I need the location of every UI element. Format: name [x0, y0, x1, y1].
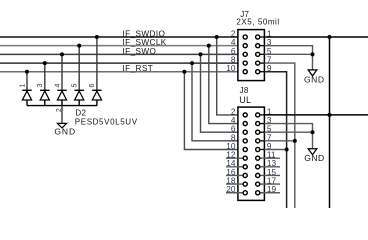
- junction J8 pin9 on vertical x286.6: [285, 148, 289, 152]
- junction at x329.5 on J7 pin1 net: [328, 35, 332, 39]
- J8 pin number 8: [231, 132, 236, 142]
- junction on IF_RST at x27: [25, 70, 29, 74]
- reference designator J7: [240, 10, 249, 19]
- svg-text:4: 4: [54, 84, 61, 88]
- J8 pin number 10: [226, 141, 236, 151]
- junction J8 pin7 on vertical x294.8: [293, 139, 297, 143]
- svg-text:GND: GND: [54, 126, 76, 136]
- junction on IF_SWO at x62: [60, 52, 64, 56]
- J8 pin number 7: [267, 132, 272, 142]
- J8 pin number 19: [267, 184, 277, 194]
- J7 pin number 4: [231, 37, 236, 47]
- svg-text:20: 20: [226, 184, 236, 194]
- J8 pin number 1: [267, 106, 272, 116]
- J8 pin number 13: [267, 158, 277, 168]
- wire J8 pin1 to right edge: [264, 114, 368, 116]
- ground symbol below D2: [54, 123, 76, 136]
- wire D2 pin2 to ground: [61, 106, 63, 124]
- J8 pin number 15: [267, 167, 277, 177]
- svg-text:3: 3: [37, 84, 44, 88]
- wire J8 pin9: [264, 149, 286, 151]
- svg-text:PESD5V0L5UV: PESD5V0L5UV: [75, 118, 138, 127]
- J8 pin circles left column: [243, 113, 247, 195]
- J7 pin number 6: [231, 46, 236, 56]
- wire drop from IF_SWDIO to diode 5 (pin6): [96, 37, 98, 90]
- wire feed J8 pin10 from IF_RST: [184, 72, 243, 150]
- J7 pin number 7: [267, 55, 272, 65]
- J8 unconnected left stubs pins 12-20: [226, 158, 244, 193]
- svg-text:IF_RST: IF_RST: [123, 64, 154, 73]
- svg-text:6: 6: [89, 84, 96, 88]
- junction on IF_SWDIO at x96.9: [95, 35, 99, 39]
- J8 pin stubs right column connected: [260, 115, 265, 150]
- svg-text:IF_SWO: IF_SWO: [123, 47, 157, 56]
- wire J7 pin3 to gnd: [264, 46, 312, 70]
- svg-text:D2: D2: [75, 109, 86, 118]
- J8 pin number 11: [267, 150, 276, 160]
- net label IF_RST: [123, 64, 154, 73]
- wire IF_SWO bus: [0, 53, 244, 55]
- value label 2X5, 50mil: [236, 18, 279, 27]
- pin number 3 (rotated): [37, 84, 44, 88]
- J8 pin number 20: [226, 184, 236, 194]
- J7 pin circles right column: [256, 35, 260, 74]
- J8 pin number 9: [267, 141, 272, 151]
- diode D2 element pin6: [92, 90, 101, 105]
- junction on IF_SWO at x200.5: [199, 52, 203, 56]
- svg-text:2X5, 50mil: 2X5, 50mil: [236, 18, 279, 27]
- wire J7 pin5 to gnd: [264, 53, 312, 55]
- svg-text:IF_SWCLK: IF_SWCLK: [123, 38, 167, 47]
- J8 pin number 2: [231, 106, 236, 116]
- J7 pin number 2: [231, 28, 236, 38]
- reference designator J8: [240, 86, 249, 95]
- value label PESD5V0L5UV: [75, 118, 138, 127]
- net label IF_SWCLK: [123, 38, 167, 47]
- J8 pin number 6: [231, 124, 236, 134]
- wire row4 (unlabeled) bus: [0, 62, 244, 64]
- J8 pin number 5: [267, 124, 272, 134]
- J8 pin number 4: [231, 115, 236, 125]
- svg-text:2: 2: [56, 108, 63, 112]
- svg-text:J8: J8: [240, 86, 249, 95]
- wire feed J8 pin2 from IF_SWDIO: [217, 37, 244, 115]
- net label IF_SWDIO: [123, 29, 166, 38]
- junction at x329.5 on J8 pin1: [328, 113, 332, 117]
- svg-text:1: 1: [19, 84, 26, 88]
- pin number 4 (rotated): [54, 84, 61, 88]
- J7 pin number 9: [267, 63, 272, 73]
- J8 pin number 16: [226, 167, 236, 177]
- junction on row4 (unlabeled) at x192: [190, 61, 194, 65]
- J8 pin number 17: [267, 176, 277, 186]
- diode D2 element pin4: [57, 90, 66, 105]
- J7 pin number 8: [231, 55, 236, 65]
- J8 pin number 3: [267, 115, 272, 125]
- diode D2 element pin3: [40, 90, 49, 105]
- junction on IF_SWDIO at x216.7: [215, 35, 219, 39]
- J8 unconnected right stubs pins 11-19: [260, 158, 280, 193]
- wire feed J8 pin4 from IF_SWCLK: [209, 46, 244, 124]
- pin number 6 (rotated): [89, 84, 96, 88]
- junction J7 pin3/pin5 gnd: [311, 52, 315, 56]
- connector J8 outline: [238, 107, 265, 200]
- reference designator D2: [75, 109, 86, 118]
- junction on IF_RST at x184.4: [182, 70, 186, 74]
- svg-text:GND: GND: [304, 75, 325, 85]
- J8 pin number 18: [226, 176, 236, 186]
- wire drop from IF_RST to diode 1 (pin1): [26, 72, 28, 91]
- wire feed J8 pin6 from IF_SWO: [201, 54, 244, 132]
- wire drop from IF_SWCLK to diode 4 (pin5): [78, 46, 80, 91]
- ground symbol at J7: [304, 70, 325, 85]
- pin number 2 (rotated): [56, 108, 63, 112]
- wire drop from IF_SWO to diode 3 (pin4): [61, 54, 63, 90]
- pin number 1 (rotated): [19, 84, 26, 88]
- J8 pin number 12: [226, 150, 236, 160]
- J7 pin number 5: [267, 46, 272, 56]
- wire J8 pin3 to gnd: [264, 124, 312, 149]
- diode D2 element pin1: [22, 90, 31, 105]
- wire IF_SWDIO bus: [0, 36, 244, 38]
- pin number 5 (rotated): [72, 84, 79, 88]
- svg-text:IF_SWDIO: IF_SWDIO: [123, 29, 166, 38]
- wire drop from row4 (unlabeled) to diode 2 (pin3): [44, 63, 46, 90]
- wire J7 pin7 down to J8 pin7 and bottom: [264, 63, 294, 208]
- J8 pin number 14: [226, 158, 236, 168]
- wire J8 pin7: [264, 140, 294, 142]
- J7 pin stubs right column: [260, 37, 265, 72]
- J7 pin number 1: [267, 28, 272, 38]
- junction on row4 (unlabeled) at x44.8: [43, 61, 47, 65]
- wire feed J8 pin8 from row4 (unlabeled): [192, 63, 244, 141]
- J8 pin circles right column: [256, 113, 260, 195]
- wire IF_RST bus: [0, 71, 244, 73]
- connector J7 outline: [238, 30, 265, 81]
- svg-text:UL: UL: [239, 95, 251, 105]
- J7 pin number 10: [226, 63, 236, 73]
- wire IF_SWCLK bus: [0, 45, 244, 47]
- svg-text:19: 19: [267, 184, 277, 194]
- wire J7 pin1 to right edge: [264, 36, 368, 38]
- junction on IF_SWCLK at x208.8: [207, 44, 211, 48]
- wire D2 common anode rail: [27, 105, 97, 107]
- J7 pin circles left column: [243, 35, 247, 74]
- junction J8 pin3/pin5 gnd: [311, 130, 315, 134]
- svg-text:5: 5: [72, 84, 79, 88]
- net label IF_SWO: [123, 47, 157, 56]
- wire vertical x329.5 to bottom edge: [329, 37, 331, 208]
- diode D2 element pin5: [75, 90, 84, 105]
- junction on IF_SWCLK at x79.2: [77, 44, 81, 48]
- svg-text:GND: GND: [304, 153, 325, 163]
- ground symbol at J8: [304, 149, 325, 164]
- svg-text:10: 10: [226, 63, 236, 73]
- wire J8 pin5 to gnd: [264, 131, 312, 133]
- value label UL: [239, 95, 251, 105]
- J7 pin number 3: [267, 37, 272, 47]
- wire J7 pin9 down to J8 pin9 and bottom: [264, 72, 286, 208]
